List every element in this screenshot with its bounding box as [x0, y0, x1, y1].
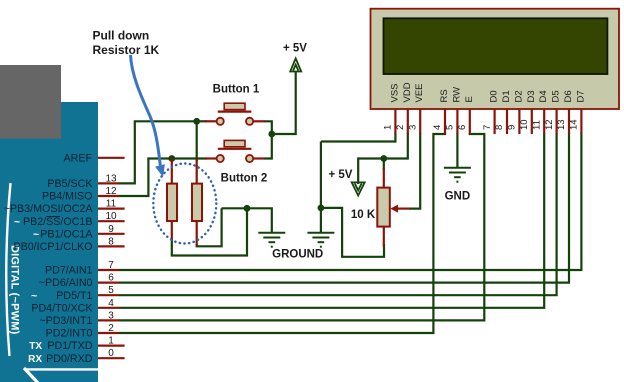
svg-text:RW: RW: [451, 87, 462, 103]
wire LCD pin3 VEE down to pot wiper: [409, 133, 420, 209]
svg-text:1: 1: [383, 125, 394, 130]
ground symbol right (VSS): [307, 233, 334, 247]
svg-text:3: 3: [407, 125, 418, 130]
wire LCD pin6 E down: [119, 133, 484, 320]
wire junction A down to resistor R2 top: [196, 121, 198, 161]
pin 2 stub: [407, 109, 409, 135]
overline on SS of PB2/SS/OC1B: [47, 216, 61, 218]
svg-text:Pull down: Pull down: [93, 29, 150, 43]
pin 7 stub: [98, 269, 119, 271]
LCD screen: [384, 18, 608, 74]
button 1 (pushbutton): [205, 103, 265, 125]
svg-text:10: 10: [105, 211, 117, 222]
svg-text:10: 10: [519, 119, 530, 130]
pin 5 stub: [456, 109, 458, 135]
pin 12 stub D5: [555, 109, 557, 135]
svg-text:+ 5V: + 5V: [329, 169, 353, 181]
svg-text:TX: TX: [29, 341, 42, 352]
wire VSS junction to pot bottom loop: [321, 208, 384, 257]
svg-text:9: 9: [507, 125, 518, 130]
gray USB connector block: [0, 65, 61, 139]
wires (dark green): [119, 72, 581, 333]
wire LCD pin5 RW to GND: [456, 133, 458, 168]
pin 4 stub: [98, 307, 119, 309]
svg-text:PB1/OC1A: PB1/OC1A: [40, 228, 93, 240]
svg-text:12: 12: [544, 119, 555, 130]
button 2 (pushbutton): [205, 140, 265, 162]
svg-text:PB4/MISO: PB4/MISO: [42, 191, 92, 203]
ground symbol left (buttons): [258, 233, 285, 247]
svg-text:8: 8: [108, 236, 114, 247]
svg-text:~PB3/MOSI/OC2A: ~PB3/MOSI/OC2A: [4, 203, 94, 215]
svg-text:Button 1: Button 1: [213, 84, 260, 96]
svg-text:14: 14: [569, 119, 580, 130]
+5V power symbol (pot, pointing down): [352, 182, 365, 195]
ground symbol GND (LCD RW): [444, 168, 471, 182]
wire pot top lead green part: [383, 159, 385, 171]
svg-text:D1: D1: [501, 90, 512, 102]
junction B (+5V rail): [268, 131, 275, 138]
svg-text:~PD6/AIN0: ~PD6/AIN0: [39, 277, 93, 289]
svg-text:13: 13: [105, 173, 117, 184]
svg-text:1: 1: [108, 336, 114, 347]
svg-text:PD1/TXD: PD1/TXD: [47, 340, 92, 352]
resistor R1 (left pulldown): [167, 159, 177, 241]
svg-text:~: ~: [33, 228, 39, 240]
svg-text:~: ~: [31, 290, 37, 302]
svg-text:4: 4: [432, 125, 443, 130]
LCD module LCD1: [371, 9, 620, 109]
wire LCD pin4 RS down: [119, 133, 445, 333]
pin labels on teal block: [4, 152, 94, 364]
board white arc: [6, 183, 10, 356]
pin 10 stub: [98, 220, 125, 222]
pin 11 stub: [98, 208, 125, 210]
Arduino digital connector U1 (teal board block): [0, 102, 98, 382]
pin 9 stub: [98, 233, 125, 235]
svg-text:AREF: AREF: [63, 152, 92, 164]
pin 8 stub: [98, 245, 125, 247]
svg-text:9: 9: [108, 224, 114, 235]
pin 14 stub D7: [580, 109, 582, 135]
svg-text:11: 11: [531, 120, 542, 130]
svg-text:D0: D0: [489, 90, 500, 102]
svg-text:VSS: VSS: [389, 83, 400, 102]
svg-text:PB2/SS/OC1B: PB2/SS/OC1B: [23, 216, 93, 228]
wire button1 left stub to junction A: [197, 120, 207, 122]
svg-text:8: 8: [494, 125, 505, 130]
svg-text:0: 0: [108, 348, 114, 359]
pin 3 stub: [98, 319, 119, 321]
svg-text:11: 11: [106, 199, 117, 210]
svg-text:PB0/ICP1/CLKO: PB0/ICP1/CLKO: [13, 241, 92, 253]
svg-text:10 K: 10 K: [351, 209, 376, 221]
wire junction B down to button2 right: [264, 134, 272, 159]
board outline white notch: [24, 368, 38, 382]
pin 1 stub: [394, 109, 396, 135]
pin AREF stub: [98, 157, 125, 159]
wire R2 bottom staircase to junction C: [197, 208, 222, 246]
svg-text:Resistor 1K: Resistor 1K: [93, 43, 160, 57]
pin stubs of arduino: [98, 158, 125, 358]
board outline white line (bottom edge): [25, 368, 98, 370]
junction VSS/ground: [318, 205, 325, 212]
svg-text:GND: GND: [445, 191, 471, 203]
wire LCD pin14 D7 down: [119, 133, 581, 270]
svg-text:RX: RX: [28, 354, 42, 365]
svg-text:~PD3/INT1: ~PD3/INT1: [39, 315, 92, 327]
wire LCD pin2 VDD to +5V junction row: [358, 133, 408, 184]
svg-text:VEE: VEE: [414, 83, 425, 102]
svg-text:RS: RS: [439, 89, 450, 102]
annotation arrow (blue): [131, 55, 165, 177]
pin 12 stub: [98, 195, 119, 197]
svg-text:3: 3: [108, 310, 114, 321]
+5V power symbol (buttons): [290, 58, 301, 71]
svg-text:7: 7: [482, 125, 493, 130]
svg-text:PD7/AIN1: PD7/AIN1: [45, 265, 93, 277]
wire VSS vertical and ground junction: [320, 142, 322, 233]
svg-text:6: 6: [108, 273, 114, 284]
svg-text:5: 5: [108, 285, 114, 296]
pin 13 stub D6: [568, 109, 570, 135]
wire LCD pin1 VSS down-left: [321, 133, 396, 142]
annotation dashed ellipse around pulldown resistors: [153, 164, 216, 244]
LCD pin stubs: [395, 109, 581, 135]
svg-text:2: 2: [395, 125, 406, 130]
potentiometer RV1 10K: [377, 168, 410, 247]
wire LCD pin12 D5 down: [119, 133, 557, 295]
svg-text:PB5/SCK: PB5/SCK: [47, 178, 93, 190]
svg-text:GROUND: GROUND: [272, 249, 323, 261]
pin 8 stub D1: [506, 109, 508, 135]
junction R1 top on row2: [168, 155, 175, 162]
svg-text:Button 2: Button 2: [221, 173, 268, 185]
svg-text:D3: D3: [526, 90, 537, 102]
arduino pin numbers: [105, 173, 117, 359]
svg-text:DIGITAL (~PWM): DIGITAL (~PWM): [9, 245, 21, 335]
svg-text:4: 4: [108, 298, 114, 309]
wire pin13 to button1 row: [119, 121, 197, 183]
pin 3 stub: [419, 109, 421, 135]
wire junction C row to left ground: [222, 208, 272, 232]
junction C (resistors to ground): [244, 205, 251, 212]
svg-text:D4: D4: [538, 90, 549, 102]
wire LCD pin11 D4 down: [119, 133, 544, 308]
pin 6 stub: [469, 109, 471, 135]
pin 9 stub D2: [518, 109, 520, 135]
wire pin12 to button2 row: [119, 159, 207, 197]
svg-text:D2: D2: [513, 90, 524, 102]
wire button1 right to +5V rail: [264, 72, 296, 134]
resistor R2 (right pulldown): [192, 159, 202, 245]
svg-text:13: 13: [556, 119, 567, 130]
TX RX white labels: [28, 341, 42, 365]
svg-text:+ 5V: + 5V: [283, 43, 307, 55]
svg-text:VDD: VDD: [402, 82, 413, 102]
annotation text Pull down Resistor 1K: [93, 29, 160, 58]
pin 5 stub: [98, 294, 119, 296]
svg-text:D6: D6: [563, 90, 574, 102]
svg-text:E: E: [464, 96, 475, 102]
svg-text:12: 12: [105, 186, 117, 197]
pin 7 stub D0: [494, 109, 496, 135]
junction VDD/pot top: [380, 155, 387, 162]
svg-text:D7: D7: [575, 90, 586, 102]
wire R1 bottom loop to junction C: [172, 208, 247, 255]
junction A (pin13/button1): [193, 118, 200, 125]
svg-text:~: ~: [14, 216, 20, 228]
pin 0 stub: [98, 357, 125, 359]
wire LCD pin13 D6 down: [119, 133, 569, 283]
svg-text:5: 5: [445, 125, 456, 130]
pin 6 stub: [98, 282, 119, 284]
pin 1 stub: [98, 345, 125, 347]
pin 10 stub D3: [531, 109, 533, 135]
LCD pin labels: [389, 82, 586, 102]
svg-text:PD0/RXD: PD0/RXD: [46, 353, 93, 365]
svg-text:6: 6: [457, 125, 468, 130]
svg-text:D5: D5: [551, 90, 562, 102]
pin 4 stub: [444, 109, 446, 135]
pot wiper arrow: [396, 208, 410, 210]
pin 13 stub: [98, 182, 119, 184]
LCD pin numbers: [383, 119, 580, 130]
pin 11 stub D4: [543, 109, 545, 135]
svg-text:2: 2: [108, 323, 114, 334]
svg-text:PD2/INT0: PD2/INT0: [46, 328, 93, 340]
svg-text:PD4/T0/XCK: PD4/T0/XCK: [31, 302, 93, 314]
svg-text:PD5/T1: PD5/T1: [56, 290, 92, 302]
pin 2 stub: [98, 332, 119, 334]
svg-text:7: 7: [108, 260, 114, 271]
